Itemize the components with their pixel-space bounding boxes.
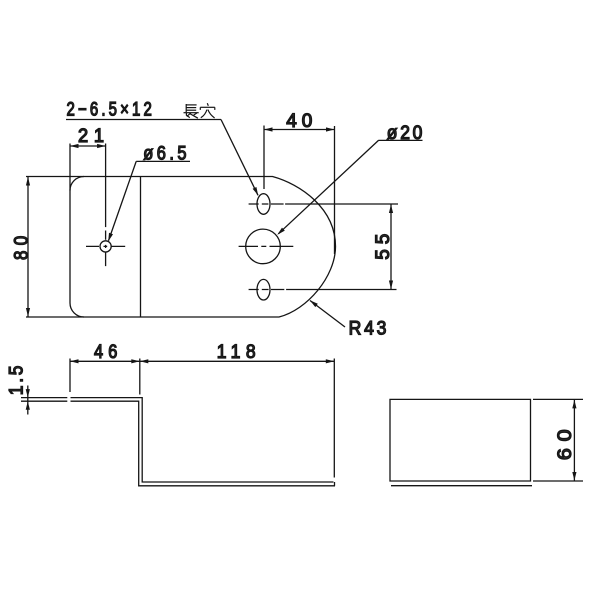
kanji ana (hole) <box>200 103 215 118</box>
40 right extension <box>334 126 336 254</box>
46-118 shared extension <box>139 359 141 395</box>
svg-text:ø6.5: ø6.5 <box>143 144 190 165</box>
top slot center vertical / 40 left extension <box>263 126 265 190</box>
bottom slot centerline + 55 bottom extension <box>249 289 397 291</box>
hole 20 circle <box>246 229 281 264</box>
label 6.5 leader arrow <box>108 233 113 242</box>
svg-text:80: 80 <box>12 231 33 260</box>
svg-text:46: 46 <box>94 342 123 363</box>
80 dim: top extension <box>26 176 84 178</box>
46 extension left <box>69 359 71 393</box>
80 dim line <box>27 177 29 317</box>
40 arrow right <box>326 127 335 131</box>
svg-text:ø20: ø20 <box>387 123 425 144</box>
21 arrow left <box>70 144 79 148</box>
label 20 underline <box>378 139 422 141</box>
slot label underline <box>66 119 221 121</box>
plate outline with R43 end cap and filleted left corners <box>70 177 336 318</box>
21 right extension to small hole <box>105 144 107 228</box>
slot label arrow <box>253 187 259 196</box>
end view rectangle <box>390 399 531 481</box>
21 dim line <box>70 145 106 147</box>
60 top extension <box>533 398 583 400</box>
svg-text:118: 118 <box>217 342 262 363</box>
label 20 leader <box>279 140 379 233</box>
bend line <box>140 177 142 318</box>
hole 6.5 centerline horizontal <box>86 245 125 247</box>
55 dim line <box>390 204 392 290</box>
46 arrow right <box>131 359 140 363</box>
svg-text:1.5: 1.5 <box>7 363 28 396</box>
label 20 arrow <box>277 228 285 235</box>
1.5 arrow down <box>26 389 30 398</box>
label 6.5 underline <box>136 160 190 162</box>
slot label leader <box>221 120 258 196</box>
60 arrow down <box>572 472 576 481</box>
svg-text:21: 21 <box>78 126 110 147</box>
svg-text:40: 40 <box>286 111 317 132</box>
55 arrow down <box>389 281 393 290</box>
118 arrow left <box>140 359 149 363</box>
46-118 dim line <box>70 360 334 362</box>
21 left extension (plate edge extended) <box>69 144 71 191</box>
46 arrow left <box>70 359 79 363</box>
21 arrow right <box>97 144 106 148</box>
profile lower surface <box>21 401 335 486</box>
60 bottom extension <box>533 480 583 482</box>
118 arrow right <box>326 359 335 363</box>
profile right end cap <box>334 482 336 486</box>
end view bottom edge line <box>391 485 532 487</box>
svg-text:60: 60 <box>555 423 576 461</box>
60 arrow up <box>572 400 576 409</box>
profile upper surface <box>21 398 334 482</box>
80 arrow down <box>26 308 30 317</box>
bottom slot <box>257 279 270 300</box>
kanji naga (long) <box>184 104 199 118</box>
top slot <box>257 194 270 215</box>
hole 6.5 centerline vertical <box>105 231 107 267</box>
svg-text:R43: R43 <box>349 319 390 340</box>
R43 arrow <box>310 300 318 307</box>
R43 leader <box>310 301 345 328</box>
1.5 arrow up <box>26 401 30 410</box>
top slot centerline horizontal + 55 top extension <box>249 203 398 205</box>
118 extension right <box>333 359 335 478</box>
hole 20 centerline <box>239 245 294 247</box>
label 6.5 leader <box>109 161 137 240</box>
hole 6.5 circle <box>100 241 111 252</box>
80 arrow up <box>26 177 30 186</box>
40 dim line <box>264 129 335 131</box>
40 arrow left <box>264 127 273 131</box>
80 dim: bottom extension <box>26 316 84 318</box>
svg-text:55: 55 <box>373 229 394 260</box>
svg-text:2−6.5×12: 2−6.5×12 <box>67 100 156 121</box>
60 dim line <box>573 399 575 481</box>
1.5 dim line <box>27 386 29 415</box>
55 arrow up <box>389 205 393 214</box>
